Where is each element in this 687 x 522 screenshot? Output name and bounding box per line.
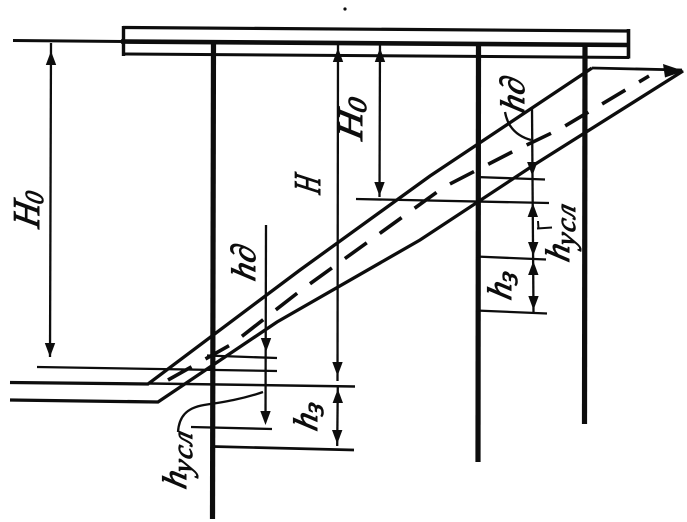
node derrick-bar bottom line [122, 54, 629, 58]
node conditional level S-curve [178, 392, 263, 432]
node tick y313 well C [476, 311, 547, 314]
wire dimension H0 middle [378, 41, 381, 197]
wire dimension H0 left [50, 43, 51, 357]
node label H [286, 169, 329, 197]
node label h_d well C [494, 71, 531, 116]
wire dimension line well C [532, 108, 534, 312]
node derrick-bar left edge [122, 26, 125, 56]
node derrick-bar top line [123, 28, 629, 32]
node label H0 middle [331, 92, 372, 144]
node angle arc well C [505, 112, 531, 140]
node ref line y448 [213, 447, 354, 451]
node ref line y384 [150, 384, 355, 387]
node label husl well C [539, 196, 581, 267]
wire dimension h_d left [264, 225, 267, 420]
node leader mark husl C [537, 221, 552, 229]
node derrick-bar mid thick line [121, 42, 629, 46]
wire dimension H [336, 44, 339, 381]
wire well A [213, 40, 214, 519]
node tick y258 well C [476, 257, 546, 260]
node seam top boundary [10, 68, 592, 384]
wire well D [582, 45, 588, 424]
node label h3 well C [481, 265, 523, 304]
wire well C [475, 43, 481, 462]
node label h_d left [225, 239, 262, 284]
node seam dashed centerline [168, 76, 649, 380]
node scan speck [343, 7, 346, 10]
wire surface line left [13, 41, 124, 42]
node label husl left [156, 423, 198, 494]
node label h3 left [287, 396, 329, 435]
node tick y178 well C [476, 177, 545, 180]
node seam bottom boundary [10, 71, 683, 402]
node tick y428 [191, 427, 272, 429]
node tick y200 [356, 199, 549, 203]
node ref line y368 [37, 367, 277, 371]
node label H0 left [5, 185, 49, 232]
node tick y357 [207, 356, 277, 359]
wire dimension h3 left [336, 386, 339, 446]
node derrick-bar right edge [627, 29, 631, 59]
node seam right end cap [592, 68, 682, 70]
node seam end vertex [663, 64, 684, 78]
